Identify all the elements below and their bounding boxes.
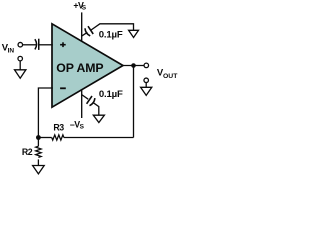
supply -VS line xyxy=(81,90,83,118)
wire bottom cap to ground xyxy=(93,102,99,115)
resistor R3 xyxy=(52,135,64,140)
wire op-amp output xyxy=(123,65,144,67)
svg-text:OUT: OUT xyxy=(163,73,178,80)
wire feedback vertical xyxy=(133,67,135,138)
capacitor 0.1uF bottom xyxy=(87,96,95,106)
supply +VS label xyxy=(73,0,86,11)
capacitor C1 xyxy=(35,39,39,50)
ground input xyxy=(15,70,26,78)
op-amp U1 xyxy=(52,24,123,107)
svg-text:R2: R2 xyxy=(22,147,33,157)
node VIN label xyxy=(2,43,15,55)
svg-text:0.1µF: 0.1µF xyxy=(99,29,123,40)
output ground terminal xyxy=(144,78,149,83)
wire terminal to ground xyxy=(19,61,21,70)
capacitor 0.1uF top xyxy=(85,26,93,36)
svg-text:OP AMP: OP AMP xyxy=(56,61,103,75)
junction output node xyxy=(131,63,136,68)
wire +VS supply line xyxy=(81,12,83,41)
resistor R2 xyxy=(36,146,41,157)
wire +VS to bypass cap xyxy=(82,32,88,36)
wire top cap to ground xyxy=(91,24,134,31)
svg-text:S: S xyxy=(82,5,87,12)
ground bottom cap xyxy=(93,115,104,122)
wire C1 to op-amp + input xyxy=(39,44,53,46)
svg-text:IN: IN xyxy=(8,47,15,54)
ground top-right xyxy=(129,30,139,37)
svg-text:R3: R3 xyxy=(53,122,64,132)
svg-text:S: S xyxy=(80,124,85,131)
supply -VS label xyxy=(70,119,85,130)
input ground terminal xyxy=(18,56,23,61)
ground output xyxy=(141,87,152,95)
node VIN terminal xyxy=(18,42,23,47)
svg-text:0.1µF: 0.1µF xyxy=(99,89,123,100)
node VOUT label xyxy=(157,68,178,80)
wire R2 to ground xyxy=(37,159,39,165)
ground R2 xyxy=(33,166,45,174)
wire junction to R2 xyxy=(37,138,39,147)
wire feedback horizontal right of R3 xyxy=(64,137,134,139)
wire output terminal to ground xyxy=(145,83,147,88)
wire -VS to bottom bypass cap xyxy=(82,95,89,100)
junction feedback node xyxy=(36,135,41,140)
node VOUT terminal xyxy=(144,63,149,68)
wire inverting input xyxy=(38,88,52,138)
wire VIN to C1 xyxy=(23,44,36,46)
wire R3 to junction xyxy=(38,137,51,139)
